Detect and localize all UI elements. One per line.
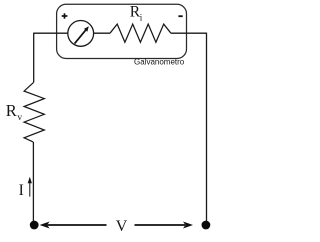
- galvanometer meter face: [68, 21, 94, 47]
- node A (left bottom): [30, 221, 39, 230]
- galvanometer box U1: [57, 4, 187, 58]
- resistor Rv: [24, 82, 44, 142]
- wire: top-left horizontal from node corner into box to meter: [34, 32, 68, 34]
- current arrow I: [28, 177, 32, 197]
- voltage arrow right: [135, 222, 194, 229]
- galvanometer needle: [75, 26, 89, 43]
- resistor Ri: [110, 24, 171, 42]
- svg-text:V: V: [116, 218, 128, 235]
- wire: meter to resistor Ri: [94, 32, 110, 34]
- svg-text:Galvanometro: Galvanometro: [134, 58, 185, 67]
- wire: left vertical from corner down to Rv: [33, 33, 35, 83]
- voltage arrow left: [40, 222, 107, 229]
- node B (right bottom): [202, 221, 211, 230]
- svg-text:R: R: [6, 101, 17, 120]
- svg-text:v: v: [17, 113, 22, 123]
- wire: right vertical down to node: [206, 33, 208, 223]
- plus terminal: [62, 13, 68, 18]
- svg-text:I: I: [19, 182, 24, 199]
- wire: resistor Ri to right corner: [171, 32, 207, 34]
- minus terminal: [178, 15, 182, 17]
- wire: Rv down to left node: [32, 142, 34, 223]
